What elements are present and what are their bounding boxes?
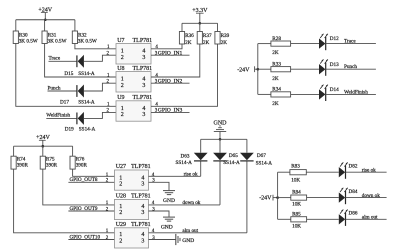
svg-text:GND: GND [182, 238, 194, 244]
wire rail to R75 [42, 146, 44, 157]
svg-text:3K 0.5W: 3K 0.5W [19, 38, 38, 44]
svg-text:2: 2 [119, 210, 122, 216]
svg-text:2K: 2K [203, 40, 210, 46]
svg-text:alm out: alm out [182, 228, 198, 234]
svg-text:alm out: alm out [362, 215, 378, 221]
wire R34 to D14 [291, 93, 319, 95]
wire R83 to D82 [306, 171, 339, 173]
svg-text:WeldFinish: WeldFinish [344, 89, 368, 95]
node +3.3V junction dot [199, 22, 202, 25]
wire Punch to D17 [48, 90, 77, 92]
op-amp U8 optocoupler TLP781 [116, 72, 151, 92]
svg-text:390R: 390R [46, 162, 58, 168]
LED D84 [339, 192, 345, 202]
LED D13 [319, 64, 325, 74]
op-amp U9 optocoupler TLP781 [116, 101, 151, 121]
svg-text:2: 2 [121, 55, 124, 61]
svg-text:U8: U8 [117, 66, 124, 72]
diode D67 SS14-A [240, 153, 254, 161]
svg-text:R39: R39 [221, 33, 230, 39]
svg-text:D17: D17 [60, 100, 69, 106]
svg-text:SS14-A: SS14-A [79, 126, 96, 132]
resistor R74 390R [11, 156, 16, 169]
LED D82 [339, 167, 345, 177]
wire U27 pin4 to D63 (rise ok) [149, 175, 201, 177]
svg-text:4: 4 [142, 77, 145, 83]
svg-text:SS14-A: SS14-A [176, 160, 193, 166]
node -24V junction dot [257, 68, 260, 71]
wire R75 to U28 pin1 [43, 169, 115, 205]
svg-text:TLP781: TLP781 [131, 194, 151, 200]
wire rail to R74 [13, 146, 15, 157]
wire rail to R30 [15, 20, 17, 31]
svg-text:TLP781: TLP781 [133, 38, 153, 44]
svg-text:D15: D15 [64, 71, 73, 77]
svg-text:down ok: down ok [182, 200, 200, 206]
svg-text:R37: R37 [203, 33, 212, 39]
node +24V junction dot (bottom) [42, 145, 45, 148]
svg-text:D67: D67 [257, 153, 266, 159]
resistor R37 2K [197, 32, 202, 45]
wire GPIO_OUT10 to U29 pin2 [68, 239, 114, 241]
svg-text:2: 2 [119, 239, 122, 245]
svg-text:3: 3 [141, 239, 144, 245]
wire D82 to net rise ok [346, 171, 387, 173]
wire U9 pin3 GPIO_IN3 stub [151, 111, 190, 113]
wire D12 to net Trace [326, 43, 376, 45]
svg-text:GND: GND [161, 224, 173, 230]
svg-text:3K 0.5W: 3K 0.5W [78, 38, 97, 44]
wire U29 pin4 to D67 (alm out) [149, 232, 247, 234]
svg-text:4: 4 [142, 106, 145, 112]
svg-text:U27: U27 [116, 164, 126, 170]
svg-text:3: 3 [142, 83, 145, 89]
wire D67 to alm out node [246, 161, 248, 233]
wire -24V bus (bottom right) [277, 172, 279, 219]
svg-text:4: 4 [141, 204, 144, 210]
node GND rail junction dot [219, 138, 222, 141]
wire D19 to U9 pin2 [83, 112, 116, 118]
svg-text:WeldFinish: WeldFinish [46, 112, 70, 118]
svg-text:R28: R28 [272, 36, 281, 42]
wire Trace to D15 [49, 60, 77, 62]
resistor R30 3K 0.5W [13, 31, 18, 44]
svg-text:3: 3 [141, 181, 144, 187]
wire bus to R33 [258, 68, 271, 70]
wire U7 pin4 to R36 [151, 44, 182, 49]
svg-text:-24V: -24V [259, 195, 272, 201]
svg-text:U9: U9 [117, 95, 124, 101]
svg-text:TLP781: TLP781 [133, 95, 153, 101]
svg-text:390R: 390R [76, 162, 88, 168]
resistor R76 390R [70, 156, 75, 169]
op-amp U29 optocoupler TLP781 [115, 228, 149, 248]
svg-text:10K: 10K [291, 178, 300, 184]
svg-text:2K: 2K [272, 76, 279, 82]
diode D17 SS14-A [76, 85, 78, 97]
wire R85 to D86 [307, 218, 339, 220]
wire rail to R36 [181, 23, 183, 31]
wire bus to R84 [278, 197, 291, 199]
svg-text:4: 4 [141, 232, 144, 238]
svg-text:R83: R83 [291, 163, 300, 169]
svg-text:R84: R84 [292, 190, 301, 196]
resistor R31 3K 0.5W [42, 31, 47, 44]
resistor R85 10K [291, 217, 307, 222]
svg-text:D65: D65 [229, 153, 238, 159]
resistor R39 2K [215, 32, 220, 45]
wire bus to R85 [278, 218, 291, 220]
wire GPIO_OUT8 to U27 pin2 [68, 181, 114, 183]
svg-text:GPIO_IN1: GPIO_IN1 [158, 51, 183, 57]
svg-text:rise ok: rise ok [362, 167, 376, 173]
svg-text:rise ok: rise ok [184, 172, 198, 178]
resistor R36 2K [179, 32, 184, 45]
svg-text:D13: D13 [330, 62, 339, 68]
wire R84 to D84 [307, 197, 339, 199]
wire U8 pin3 GPIO_IN2 stub [151, 82, 190, 84]
svg-text:Trace: Trace [344, 39, 356, 45]
svg-text:TLP781: TLP781 [133, 66, 153, 72]
wire WeldFinish to D19 [46, 117, 76, 119]
svg-text:TLP781: TLP781 [131, 222, 151, 228]
svg-text:R33: R33 [272, 61, 281, 67]
resistor R33 2K [271, 67, 291, 72]
resistor R28 2K [271, 41, 291, 46]
wire rail to D67 [246, 139, 248, 152]
wire R32 to U7 pin1 [75, 44, 116, 49]
svg-text:1: 1 [121, 106, 124, 112]
wire U7 pin3 GPIO_IN1 stub [151, 54, 190, 56]
svg-text:1: 1 [119, 204, 122, 210]
svg-text:D82: D82 [349, 163, 358, 169]
svg-text:D86: D86 [349, 211, 358, 217]
wire D17 to U8 pin2 [83, 83, 116, 91]
wire +24V rail [16, 19, 75, 21]
svg-text:2: 2 [121, 83, 124, 89]
wire +3.3V rail [182, 22, 218, 24]
LED D14 [319, 89, 325, 99]
svg-text:R34: R34 [272, 87, 281, 93]
wire R31 to U8 pin1 [45, 44, 116, 78]
svg-text:3: 3 [142, 112, 145, 118]
wire U8 pin4 to R37 [151, 44, 200, 77]
node -24V junction dot (bottom) [276, 196, 279, 199]
wire rail to R31 [44, 20, 46, 31]
svg-text:2K: 2K [272, 50, 279, 56]
svg-text:R85: R85 [292, 211, 301, 217]
svg-text:2K: 2K [221, 40, 228, 46]
svg-text:D19: D19 [65, 126, 74, 132]
svg-text:SS14-A: SS14-A [256, 161, 273, 167]
wire rail to R32 [74, 20, 76, 31]
wire U27 pin3 to GND [149, 182, 170, 190]
svg-text:3K 0.5W: 3K 0.5W [48, 38, 67, 44]
wire R33 to D13 [291, 68, 319, 70]
wire U9 pin4 to R39 [151, 44, 218, 106]
resistor R83 10K [290, 170, 306, 175]
svg-text:R36: R36 [185, 33, 194, 39]
wire -24V bus (top right) [257, 44, 259, 95]
ground GND (right of U29) [175, 234, 177, 245]
wire U29 pin3 to GND [149, 239, 176, 241]
svg-text:U29: U29 [116, 222, 126, 228]
svg-text:SS14-A: SS14-A [78, 71, 95, 77]
wire bus to R28 [258, 43, 271, 45]
svg-text:4: 4 [142, 48, 145, 54]
wire bus to R34 [258, 93, 271, 95]
diode D63 SS14-A [194, 153, 208, 161]
wire rail to D65 [219, 139, 221, 152]
svg-text:-24V: -24V [237, 68, 250, 74]
svg-text:2K: 2K [272, 101, 279, 107]
svg-text:U28: U28 [116, 194, 126, 200]
svg-text:U7: U7 [117, 38, 124, 44]
wire D65 to down ok node [219, 161, 221, 205]
ground GND (below U28) [163, 216, 175, 218]
diode D65 SS14-A [213, 153, 227, 161]
svg-text:1: 1 [121, 48, 124, 54]
svg-text:2K: 2K [185, 40, 192, 46]
wire D15 to U7 pin2 [83, 55, 116, 61]
svg-text:GPIO_IN3: GPIO_IN3 [158, 108, 183, 114]
svg-text:3: 3 [141, 210, 144, 216]
svg-text:D84: D84 [349, 189, 358, 195]
svg-text:D63: D63 [181, 154, 190, 160]
wire U28 pin4 to D65 (down ok) [149, 204, 221, 206]
svg-text:SS14-A: SS14-A [78, 100, 95, 106]
wire D86 to net alm out [346, 218, 387, 220]
svg-text:390R: 390R [17, 162, 29, 168]
wire R76 to U27 pin1 [73, 169, 115, 176]
svg-text:10K: 10K [292, 224, 301, 230]
wire diode common rail [201, 138, 247, 140]
ground GND (below U27) [163, 190, 175, 192]
wire rail to R76 [72, 146, 74, 157]
resistor R32 3K 0.5W [72, 31, 77, 44]
svg-text:GPIO_IN2: GPIO_IN2 [158, 79, 183, 85]
diode D19 SS14-A [76, 113, 78, 125]
svg-text:D14: D14 [330, 87, 339, 93]
op-amp U7 optocoupler TLP781 [116, 44, 151, 64]
resistor R84 10K [291, 195, 307, 200]
wire D84 to net down ok [346, 197, 387, 199]
node +24V junction dot [44, 18, 47, 21]
svg-text:1: 1 [121, 77, 124, 83]
op-amp U27 optocoupler TLP781 [115, 170, 149, 190]
svg-text:2: 2 [119, 181, 122, 187]
wire D13 to net Punch [326, 68, 376, 70]
LED D12 [319, 38, 325, 48]
svg-text:Trace: Trace [49, 56, 61, 62]
wire rail to R39 [217, 23, 219, 31]
svg-text:TLP781: TLP781 [131, 164, 151, 170]
wire R30 to U9 pin1 [16, 44, 116, 107]
wire D14 to net WeldFinish [326, 93, 376, 95]
diode D15 SS14-A [76, 55, 78, 67]
svg-text:Punch: Punch [344, 64, 357, 70]
svg-text:SS14-A: SS14-A [223, 160, 240, 166]
wire rail to D63 [200, 139, 202, 152]
resistor R75 390R [40, 156, 45, 169]
wire R74 to U29 pin1 [14, 169, 115, 233]
op-amp U28 optocoupler TLP781 [115, 199, 149, 219]
svg-text:down ok: down ok [362, 193, 380, 199]
wire bus to R83 [278, 171, 290, 173]
wire +24V rail (bottom) [14, 145, 73, 147]
LED D86 [339, 214, 345, 224]
wire U28 pin3 to GND [149, 211, 170, 217]
svg-text:3: 3 [142, 55, 145, 61]
svg-text:10K: 10K [292, 201, 301, 207]
wire D63 to rise ok node [200, 161, 202, 176]
svg-text:D12: D12 [330, 36, 339, 42]
wire R28 to D12 [291, 43, 319, 45]
svg-text:1: 1 [119, 232, 122, 238]
wire rail to R37 [199, 23, 201, 31]
svg-text:GND: GND [163, 198, 175, 204]
wire GPIO_OUT9 to U28 pin2 [68, 210, 114, 212]
svg-text:2: 2 [121, 112, 124, 118]
resistor R34 2K [271, 92, 291, 97]
